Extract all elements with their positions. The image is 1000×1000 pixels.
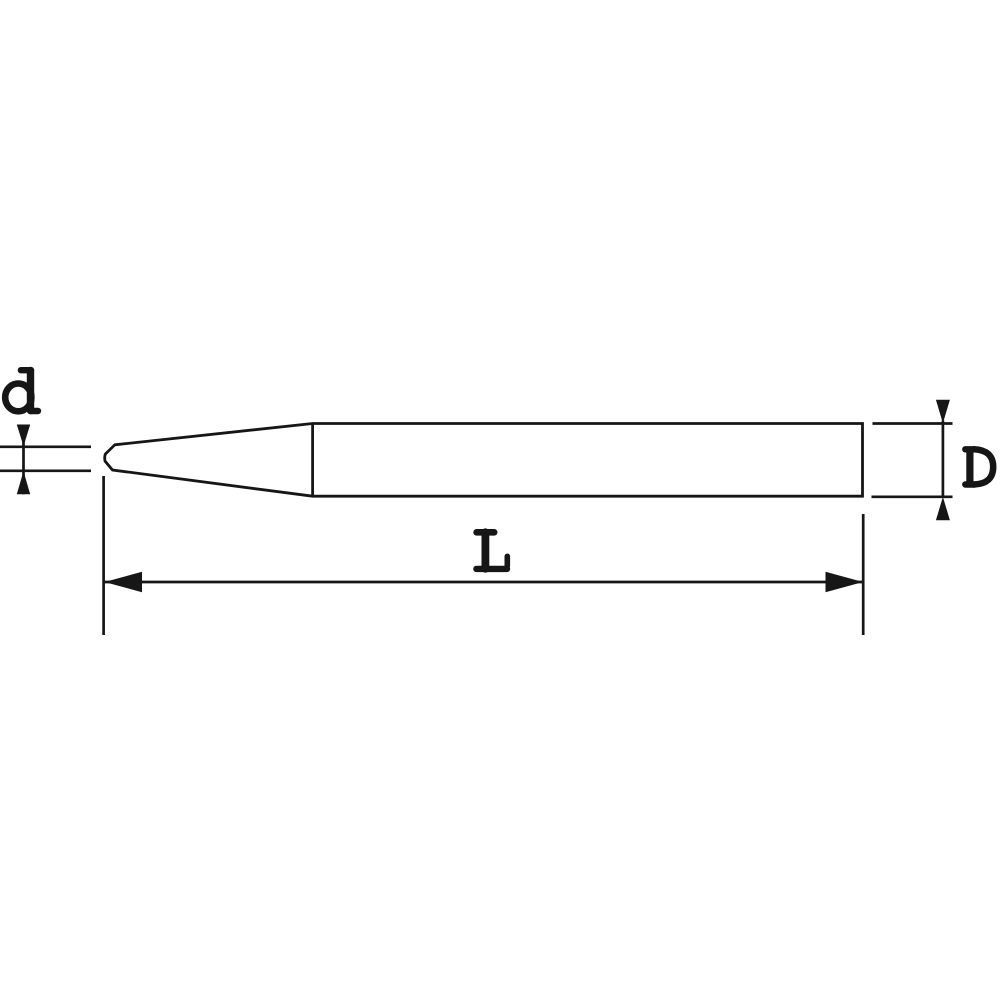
label L (slab-serif drawn): [476, 532, 507, 569]
L dimension left arrow (points left): [105, 572, 143, 592]
d dimension vertical line: [22, 425, 25, 495]
D dimension bottom arrow (points up): [936, 497, 950, 520]
L dimension horizontal line: [105, 581, 864, 584]
punch body outline: [105, 424, 863, 497]
L left extension line: [102, 476, 105, 635]
label d (slab-serif drawn): [5, 370, 38, 411]
punch cone-body junction line: [311, 424, 314, 497]
D dimension top arrow (points down): [936, 400, 950, 424]
d dimension top arrow (points down): [17, 425, 30, 447]
D dimension vertical line: [942, 421, 945, 498]
D top extension line: [873, 422, 953, 425]
d dimension bottom arrow (points up): [17, 471, 30, 494]
d top extension line: [0, 445, 91, 448]
d bottom extension line: [0, 469, 91, 472]
D bottom extension line: [872, 495, 953, 498]
L dimension right arrow (points right): [826, 572, 864, 592]
label D (slab-serif drawn): [965, 449, 993, 484]
L right extension line: [862, 514, 865, 635]
